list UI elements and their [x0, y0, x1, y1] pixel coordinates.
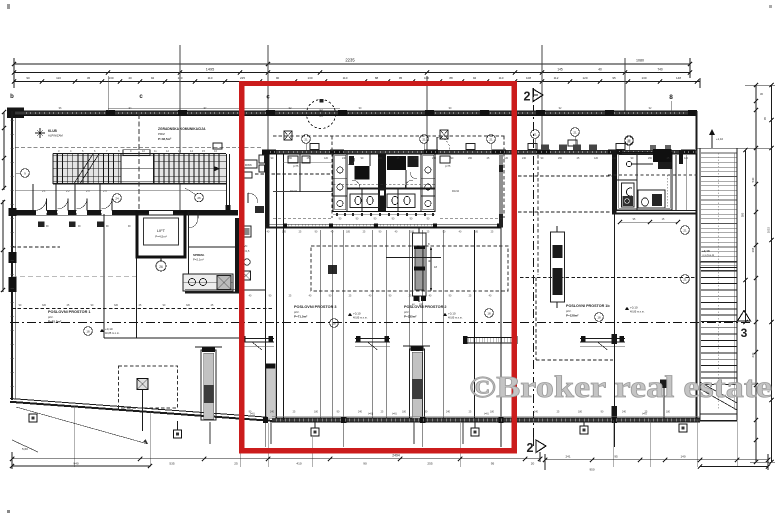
- svg-text:ZGRADNSKA KOMUNIKACIJA: ZGRADNSKA KOMUNIKACIJA: [158, 127, 206, 131]
- svg-text:260: 260: [468, 157, 473, 160]
- partition band joints: [283, 224, 287, 228]
- svg-text:120: 120: [594, 157, 599, 160]
- free column below wall 4: [471, 428, 479, 436]
- dotted vertical in bathroom hall: [666, 175, 668, 208]
- svg-text:2.4: 2.4: [103, 190, 107, 193]
- staircase direction diagonals: [74, 154, 93, 184]
- svg-text:priz.: priz.: [294, 310, 300, 314]
- svg-text:240: 240: [270, 411, 275, 414]
- dimension line: major spans: [14, 72, 690, 74]
- svg-text:320: 320: [186, 304, 191, 307]
- svg-text:120: 120: [504, 157, 509, 160]
- svg-text:40,85 m.n.m.: 40,85 m.n.m.: [448, 317, 463, 320]
- glazed partition band below wc: [265, 223, 501, 225]
- free column below wall 5: [580, 426, 588, 434]
- svg-text:240: 240: [522, 157, 527, 160]
- svg-text:24: 24: [115, 197, 119, 201]
- level marker room3: [348, 313, 352, 317]
- wall: corridor south wall (upper-left): [10, 210, 238, 212]
- svg-text:LIFT: LIFT: [157, 228, 166, 233]
- grid dropline x671: [670, 101, 672, 111]
- kitchen stove: [217, 276, 231, 290]
- bathroom sink counter: [638, 190, 665, 208]
- pantry west wall: [188, 212, 190, 293]
- svg-text:320: 320: [114, 304, 119, 307]
- svg-text:535: 535: [169, 461, 174, 465]
- svg-text:+0,10: +0,10: [105, 327, 113, 331]
- wc black fixture blob right top: [387, 156, 406, 170]
- pilaster shaft mid gray bar: [412, 352, 422, 418]
- wall: right exterior: [695, 111, 697, 420]
- right stair center line dotted: [718, 153, 720, 410]
- lift car inner outline: [144, 218, 179, 245]
- svg-text:140: 140: [680, 454, 685, 458]
- wall stub marks right section: [650, 145, 656, 150]
- stair bay left wall: [699, 148, 701, 420]
- svg-text:+0,10: +0,10: [630, 306, 638, 310]
- dashed service rect west side: [331, 136, 333, 218]
- right dimension line outer: [771, 85, 773, 462]
- svg-text:180: 180: [314, 411, 319, 414]
- shaft B whiskers: [556, 226, 558, 232]
- pilaster cap tee mid: [403, 345, 430, 347]
- north symbol: [37, 130, 43, 136]
- svg-text:180: 180: [666, 411, 671, 414]
- svg-text:ULAZNA PL.: ULAZNA PL.: [702, 255, 716, 258]
- small room south wall: [240, 289, 265, 291]
- lift shaft walls: [137, 212, 185, 257]
- svg-text:108: 108: [526, 76, 531, 80]
- stub below storefront right section: [614, 422, 616, 447]
- wc small blob left top: [349, 156, 354, 165]
- svg-text:POSLOVNI PROSTOR 1: POSLOVNI PROSTOR 1: [48, 310, 91, 314]
- svg-text:1080: 1080: [636, 59, 644, 63]
- svg-text:110: 110: [499, 76, 504, 80]
- pilaster shaft left black cap: [202, 347, 215, 353]
- wall: bathroom west (black): [612, 150, 617, 214]
- svg-text:92: 92: [151, 76, 155, 80]
- svg-text:120: 120: [324, 157, 329, 160]
- door jamb block: [255, 206, 264, 213]
- svg-text:240: 240: [612, 157, 617, 160]
- svg-text:21: 21: [304, 138, 308, 142]
- level marker room2: [485, 309, 494, 318]
- svg-text:240: 240: [342, 157, 347, 160]
- bottom dimension second line left stub: [12, 465, 150, 467]
- svg-text:95: 95: [612, 76, 616, 80]
- door arc room 2: [58, 199, 69, 210]
- grid dropline line C2: [267, 45, 269, 150]
- grid dropline line C1: [179, 45, 181, 211]
- vestibule bar room2: [466, 338, 514, 344]
- svg-text:2: 2: [527, 441, 534, 455]
- wc left sink column: [346, 154, 348, 211]
- svg-text:p=75: p=75: [293, 165, 299, 168]
- svg-text:120: 120: [414, 157, 419, 160]
- bathroom shower box: [622, 183, 635, 207]
- svg-text:95: 95: [491, 461, 495, 465]
- canopy line above top wall: [108, 107, 340, 109]
- grid dropline section axis upper stub: [541, 45, 543, 148]
- svg-text:90: 90: [276, 76, 280, 80]
- svg-text:2.3: 2.3: [86, 190, 90, 193]
- grid extension line x=240: [239, 215, 241, 455]
- wall: top exterior corner block left: [7, 108, 24, 119]
- dashed line left of wc: [255, 173, 333, 175]
- svg-text:260: 260: [558, 157, 563, 160]
- svg-text:|=6|: |=6|: [484, 412, 489, 416]
- right dims horizontal connectors: [745, 84, 775, 86]
- wall: room2 divider (gray): [499, 154, 503, 228]
- stair bay top line: [697, 147, 770, 149]
- stair bay right wall: [736, 148, 738, 420]
- heater boxes on interior wall: [213, 143, 222, 149]
- svg-text:240: 240: [446, 411, 451, 414]
- column in left wall A: [9, 252, 17, 263]
- electrical box DW: [243, 160, 257, 168]
- dashed ceiling line above stair: [15, 146, 262, 148]
- svg-text:950: 950: [589, 468, 594, 472]
- wall: top exterior (dark band): [15, 111, 697, 115]
- svg-text:40: 40: [598, 68, 602, 72]
- svg-text:112: 112: [554, 76, 559, 80]
- svg-text:45: 45: [87, 76, 91, 80]
- left dimension stub upper: [3, 112, 5, 190]
- right dimension short inner: [745, 150, 747, 322]
- staircase walk-line arrow: [214, 166, 220, 172]
- column right room: [660, 380, 668, 389]
- svg-text:95: 95: [399, 76, 403, 80]
- interior wall pier blocks: [262, 149, 276, 154]
- right stair upper flight treads (light): [701, 152, 737, 154]
- door arc room 4: [102, 199, 113, 210]
- dashed ceiling rect rooms 2-3: [311, 246, 508, 291]
- wc block outline: [333, 154, 435, 212]
- svg-text:©Broker real estate: ©Broker real estate: [469, 370, 772, 404]
- left wall tick marks: [11, 119, 15, 121]
- wall: bottom exterior (storefront dark band): [272, 418, 700, 422]
- pilaster shaft left gray bar: [204, 353, 214, 419]
- door head line left of wc: [273, 191, 333, 193]
- svg-text:40,85 m.n.m.: 40,85 m.n.m.: [630, 311, 645, 314]
- bottom dimension right second line: [700, 466, 768, 468]
- grid dropline line C4: [624, 58, 626, 111]
- dim whisker x431: [430, 248, 432, 290]
- svg-text:21: 21: [573, 131, 577, 135]
- svg-text:120: 120: [684, 157, 689, 160]
- svg-text:5,60: 5,60: [22, 447, 28, 451]
- wall blobs on x=614 lower: [612, 334, 618, 344]
- svg-text:+1,10: +1,10: [716, 137, 724, 141]
- svg-text:95: 95: [614, 454, 618, 458]
- svg-text:260: 260: [648, 157, 653, 160]
- dimension extension verticals at ends: [13, 58, 15, 88]
- svg-text:225: 225: [240, 76, 245, 80]
- svg-text:+0,10: +0,10: [353, 312, 361, 316]
- wall: bathroom east stub: [679, 150, 683, 164]
- svg-text:740: 740: [657, 68, 663, 72]
- right stair lower flight treads: [701, 270, 737, 272]
- dashed ceiling line left room: [12, 308, 272, 310]
- svg-text:540: 540: [751, 177, 755, 182]
- pilaster cap tee left: [195, 346, 222, 348]
- small service boxes left of wc: [288, 156, 298, 163]
- circled marker right wall A: [681, 226, 690, 235]
- stair bay bottom wall: [700, 413, 737, 415]
- corridor east wall blob: [226, 205, 231, 212]
- dashed ceiling rect room1 (left): [119, 366, 178, 408]
- svg-text:255: 255: [427, 461, 432, 465]
- wall piers on top facade: [106, 110, 115, 116]
- bathroom partition horizontal: [617, 179, 638, 181]
- svg-text:241: 241: [565, 454, 570, 458]
- staircase main (upper-left) outline: [53, 153, 226, 155]
- bathroom south wall: [612, 210, 697, 212]
- svg-text:18: 18: [332, 322, 336, 326]
- scan speck top-left: [7, 4, 10, 9]
- small dim line below bathroom: [620, 221, 678, 223]
- red highlight rectangle (selected unit): [242, 84, 515, 451]
- kitchen sink circles: [189, 279, 196, 286]
- pilaster shaft mid black segment: [412, 379, 422, 399]
- corridor vertical line: [103, 214, 105, 338]
- svg-text:130: 130: [108, 76, 113, 80]
- bathroom corner black blob top-right: [653, 149, 672, 162]
- corridor vertical line 2: [136, 257, 138, 338]
- svg-text:148: 148: [676, 76, 681, 80]
- svg-text:240: 240: [534, 411, 539, 414]
- grid dashed vertical through stair: [138, 114, 140, 211]
- annotation diagonal with arrow: [16, 407, 148, 444]
- staircase treads right flight: [153, 154, 155, 184]
- wall: interior north (glazed dark band): [262, 150, 697, 154]
- column in left wall joint corridor: [9, 208, 17, 216]
- bottom dims vertical connectors: [11, 452, 13, 469]
- wall: corridor east double line: [226, 154, 228, 212]
- installation shaft B outline: [551, 232, 565, 302]
- svg-text:8: 8: [669, 94, 673, 101]
- circled marker room row 2: [195, 193, 204, 202]
- bathroom marker circle: [625, 136, 634, 145]
- svg-text:185: 185: [474, 231, 479, 234]
- dashed line right of section: [518, 175, 614, 177]
- free column below wall 3: [311, 428, 319, 436]
- svg-text:110: 110: [343, 76, 348, 80]
- storefront sill line: [272, 415, 700, 417]
- thresholds below corridor wall: [38, 222, 45, 228]
- svg-text:+0,10: +0,10: [448, 312, 456, 316]
- svg-text:130: 130: [307, 76, 312, 80]
- dashed vertical between sections: [537, 155, 539, 275]
- dashed ceiling line right rooms: [520, 277, 695, 279]
- circled marker room row 1: [113, 194, 122, 203]
- svg-text:SPREM.: SPREM.: [193, 253, 205, 257]
- stair up arrow: [711, 133, 713, 148]
- svg-text:180: 180: [578, 411, 583, 414]
- svg-text:110: 110: [208, 76, 213, 80]
- staircase underlay tint: [53, 154, 226, 184]
- svg-text:180: 180: [490, 411, 495, 414]
- wall: bottom-left diagonal facade: [10, 399, 272, 418]
- room partition verticals: [320, 230, 322, 418]
- staircase landing white patch: [122, 156, 154, 181]
- shaft A whiskers: [418, 228, 420, 233]
- svg-text:21: 21: [683, 229, 687, 233]
- svg-text:21: 21: [533, 133, 537, 137]
- dropline x108: [107, 76, 109, 111]
- dashed stub west: [273, 217, 333, 219]
- gray bar on west wall of room3: [267, 366, 276, 418]
- lift door opening: [149, 210, 173, 214]
- vestibule doors room3: [355, 338, 390, 340]
- installation shaft A outline: [413, 233, 427, 296]
- columns embedded in bottom wall: [263, 417, 268, 423]
- circled marker left wall: [21, 169, 30, 178]
- scan speck top-right: [769, 5, 772, 8]
- svg-text:DW6: DW6: [245, 163, 252, 167]
- svg-text:PRIZ: PRIZ: [158, 132, 165, 136]
- wc black blob small: [408, 156, 419, 167]
- level marker room1: [84, 327, 93, 336]
- svg-text:POSLOVNI PROSTOR 2: POSLOVNI PROSTOR 2: [404, 305, 447, 309]
- light line left room upper boundary: [12, 275, 136, 277]
- vestibule doors room1/3 boundary: [240, 338, 274, 340]
- free column below wall 2: [174, 430, 182, 438]
- svg-text:priz.: priz.: [404, 310, 410, 314]
- storefront glazing mullions: [275, 418, 277, 421]
- svg-text:21: 21: [683, 278, 687, 282]
- dashed stub east: [440, 217, 504, 219]
- bottom extension droplines: [73, 406, 75, 467]
- svg-text:POSLOVNI PROSTOR 1b: POSLOVNI PROSTOR 1b: [566, 304, 610, 308]
- scan speck bottom-left: [7, 510, 10, 513]
- svg-text:25: 25: [627, 139, 631, 143]
- short dashed stub left wall: [12, 246, 60, 248]
- svg-text:26: 26: [197, 196, 201, 200]
- svg-text:40: 40: [128, 76, 132, 80]
- dimension line: overall width (top): [14, 63, 690, 65]
- right stair bottom diagonals: [700, 382, 737, 403]
- left room corridor bottom line: [104, 337, 240, 339]
- small room fixtures x240-263: [241, 226, 251, 237]
- extra stems below storefront: [209, 422, 211, 444]
- wall: left exterior: [11, 111, 13, 400]
- svg-text:2494: 2494: [392, 453, 400, 457]
- grid dropline line C3: [426, 76, 428, 150]
- svg-text:P=71,5m²: P=71,5m²: [294, 315, 307, 319]
- svg-text:2.2: 2.2: [66, 190, 70, 193]
- svg-text:|=6|: |=6|: [392, 412, 397, 416]
- svg-text:260: 260: [288, 157, 293, 160]
- kitchen counter: [183, 274, 233, 291]
- lift marker circle 26: [156, 261, 166, 271]
- svg-text:1015: 1015: [767, 226, 771, 233]
- svg-text:240: 240: [432, 157, 437, 160]
- wc stall partitions: [361, 189, 363, 212]
- svg-text:260: 260: [378, 157, 383, 160]
- svg-text:2235: 2235: [345, 58, 355, 63]
- svg-text:120: 120: [582, 76, 587, 80]
- dashed service rect east side: [503, 136, 505, 218]
- staircase treads left flight: [57, 154, 59, 184]
- svg-text:20: 20: [531, 461, 535, 465]
- svg-text:18: 18: [487, 312, 491, 316]
- svg-text:88: 88: [449, 76, 453, 80]
- svg-text:POSLOVNI PROSTOR 3: POSLOVNI PROSTOR 3: [294, 305, 337, 309]
- svg-text:40,85 m.n.m.: 40,85 m.n.m.: [353, 317, 368, 320]
- pilaster shaft left room outline: [201, 350, 216, 420]
- svg-text:630: 630: [751, 352, 755, 357]
- free column below wall 1: [29, 414, 37, 422]
- pantry partition: [189, 246, 238, 248]
- svg-text:+4,10: +4,10: [702, 249, 710, 253]
- svg-text:100: 100: [424, 76, 429, 80]
- column in room3: [328, 265, 337, 274]
- bottom-left small mark: [12, 440, 38, 452]
- svg-text:2.1: 2.1: [42, 190, 46, 193]
- bathroom knob circle: [626, 161, 631, 166]
- svg-text:21: 21: [489, 138, 493, 142]
- svg-text:|=6|: |=6|: [368, 412, 373, 416]
- svg-text:3: 3: [741, 326, 748, 340]
- pilaster shaft mid outline: [410, 349, 425, 419]
- svg-text:185: 185: [346, 231, 351, 234]
- svg-text:90: 90: [26, 76, 30, 80]
- svg-text:395: 395: [751, 247, 755, 252]
- bathroom dashes ceiling line: [608, 174, 697, 176]
- bottom dimension right group: [545, 459, 768, 461]
- wc horizontal mid wall: [347, 188, 435, 190]
- svg-text:240: 240: [622, 411, 627, 414]
- svg-text:b: b: [10, 94, 14, 100]
- wall: pantry east (thick): [235, 218, 239, 293]
- svg-text:130: 130: [641, 76, 646, 80]
- wc dashed service line: [333, 184, 435, 186]
- room partitions upper-left: [32, 184, 34, 211]
- pilaster shaft mid black cap: [411, 346, 424, 352]
- staircase flight separators: [53, 160, 226, 162]
- stubs below storefront inside red zone: [264, 422, 266, 447]
- shaft B black fills: [553, 245, 563, 258]
- door gaps in corridor wall: [36, 209, 47, 215]
- level marker room1b: [595, 313, 604, 322]
- interior wall line x=283.5: [283, 153, 285, 420]
- circled marker right wall B: [681, 275, 690, 284]
- wc tiny dim tick row below: [333, 214, 435, 216]
- svg-text:ALPINIZAM: ALPINIZAM: [48, 134, 63, 138]
- wall: room3 west (thick upper): [265, 150, 269, 227]
- heater boxes dark row right section: [541, 145, 549, 151]
- svg-text:90: 90: [363, 461, 367, 465]
- door arc room 3: [77, 199, 88, 210]
- door arc pantry: [189, 218, 199, 228]
- bathroom partition vertical: [636, 155, 638, 210]
- svg-text:88: 88: [375, 76, 379, 80]
- door arc room 1: [35, 199, 47, 211]
- svg-text:p=75: p=75: [445, 165, 451, 168]
- right dimension line inner: [755, 85, 757, 462]
- dashed door arc right of wc: [437, 137, 450, 150]
- svg-text:410: 410: [296, 461, 301, 465]
- svg-text:priz.: priz.: [566, 309, 572, 313]
- detail bubble: dashed circle above wall: [307, 100, 336, 129]
- left dimension stub lower: [2, 200, 4, 292]
- shaft A gray hatch fill: [415, 248, 424, 290]
- bottom dimension line left group: [12, 458, 540, 460]
- free column below wall 6: [679, 424, 687, 432]
- section marker 3 right: [738, 311, 751, 322]
- small service boxes right of wc: [440, 156, 450, 163]
